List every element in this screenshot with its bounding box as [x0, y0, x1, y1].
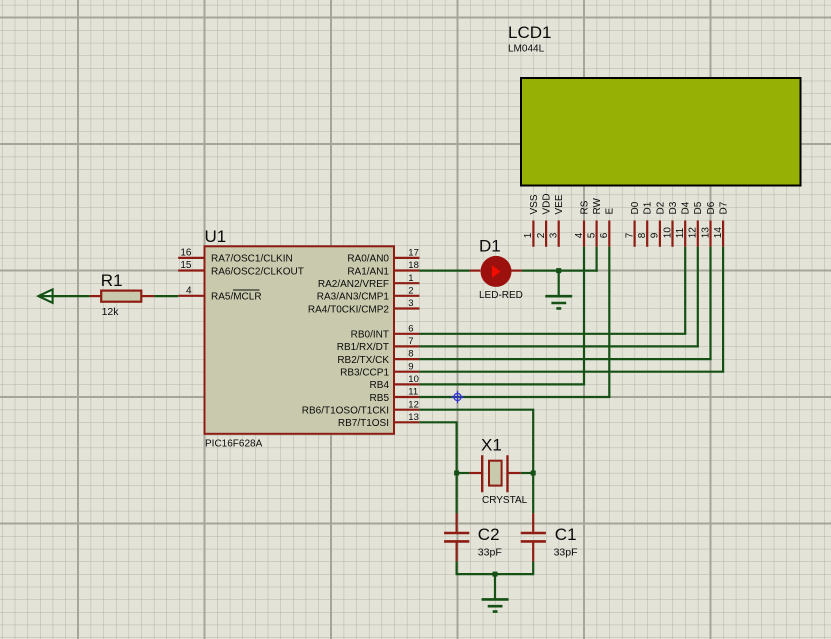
svg-text:12: 12: [688, 227, 699, 239]
resistor R1 body: [90, 291, 155, 302]
svg-text:CRYSTAL: CRYSTAL: [482, 495, 528, 506]
svg-text:RB1/RX/DT: RB1/RX/DT: [337, 342, 389, 353]
U1 pin 18 (RA1/AN1) stub + labels: [347, 260, 419, 277]
ground symbol 1 (near LED): [545, 296, 572, 308]
U1 pin 8 (RB2/TX/CK) stub + labels: [337, 349, 419, 366]
svg-text:11: 11: [408, 387, 418, 398]
svg-text:D6: D6: [706, 201, 717, 214]
svg-text:RB2/TX/CK: RB2/TX/CK: [337, 355, 389, 366]
wire X1 to crystal right node: [521, 472, 533, 474]
LCD1 pin 1 (VSS) stub + labels: [523, 194, 540, 247]
svg-text:1: 1: [408, 273, 413, 284]
U1 pin 12 (RB6/T1OSO/T1CKI) stub + labels: [302, 399, 420, 416]
value label CRYSTAL: [482, 495, 528, 506]
svg-text:X1: X1: [481, 436, 502, 455]
value label 12k: [102, 306, 120, 318]
wire LCD D6 drop: [709, 247, 711, 359]
wire bottom rail: [457, 573, 534, 575]
U1 pin 2 (RA3/AN3/CMP1) stub + labels: [317, 285, 420, 302]
svg-text:D5: D5: [693, 201, 704, 214]
svg-text:7: 7: [408, 336, 413, 347]
wire LCD D4 drop: [684, 247, 686, 334]
wire U1 RB6 right then down to crystal right node: [419, 410, 533, 473]
svg-text:11: 11: [675, 227, 686, 238]
U1 pin 15 (RA6/OSC2/CLKOUT) stub + labels: [178, 260, 304, 277]
svg-text:12: 12: [408, 399, 419, 410]
svg-text:33pF: 33pF: [554, 547, 578, 559]
input terminal arrow (left of R1): [38, 289, 52, 302]
svg-text:VEE: VEE: [554, 194, 565, 214]
IC U1 PIC16F628A body: [205, 246, 395, 433]
svg-text:10: 10: [662, 227, 673, 239]
U1 pin 10 (RB4) stub + labels: [370, 374, 420, 391]
svg-text:D0: D0: [630, 201, 641, 214]
svg-text:17: 17: [408, 247, 419, 258]
LCD1 pin 14 (D7) stub + labels: [713, 201, 730, 247]
wire crystal left node down to C2: [456, 473, 458, 513]
wire C2 down to bottom rail: [456, 561, 458, 575]
svg-text:PIC16F628A: PIC16F628A: [205, 439, 263, 450]
wire LCD D5 drop: [697, 247, 699, 347]
svg-text:2: 2: [536, 232, 547, 238]
U1 pin 9 (RB3/CCP1) stub + labels: [340, 361, 419, 378]
wire U1 RB1 to D5: [419, 345, 699, 347]
svg-text:U1: U1: [205, 227, 227, 246]
svg-text:18: 18: [408, 260, 419, 271]
value label LM044L: [508, 43, 545, 54]
svg-text:D1: D1: [643, 201, 654, 214]
svg-text:8: 8: [408, 349, 413, 360]
wire LCD RW pin down to LED net: [595, 247, 597, 272]
wire crystal right node down to C1: [532, 473, 534, 513]
wire U1 RB0 to D4: [419, 333, 686, 335]
svg-text:16: 16: [180, 247, 192, 258]
label C2: [478, 525, 500, 544]
svg-text:RA5/MCLR: RA5/MCLR: [211, 292, 262, 303]
svg-text:RA3/AN3/CMP1: RA3/AN3/CMP1: [317, 292, 390, 303]
svg-text:LED-RED: LED-RED: [479, 290, 523, 301]
svg-text:15: 15: [180, 260, 192, 271]
junction node bottom rail: [493, 572, 498, 577]
wire LCD E drop (pin6 down): [608, 247, 610, 397]
value label LED-RED: [479, 290, 523, 301]
svg-text:LCD1: LCD1: [508, 23, 551, 42]
wire U1 RB5 to E: [419, 396, 610, 398]
LCD1 pin 3 (VEE) stub + labels: [549, 194, 566, 247]
wire LCD D7 drop: [722, 247, 724, 372]
junction node crystal left: [454, 471, 459, 476]
junction node crystal right: [531, 471, 536, 476]
LED D1: [470, 256, 522, 287]
svg-text:RA4/T0CKI/CMP2: RA4/T0CKI/CMP2: [308, 304, 390, 315]
ground symbol 2 (below crystal caps): [482, 599, 509, 611]
label X1: [481, 436, 502, 455]
wire U1 RB7 right then down to crystal left node: [419, 422, 456, 473]
svg-text:RA2/AN2/VREF: RA2/AN2/VREF: [318, 279, 389, 290]
svg-text:RB5: RB5: [370, 393, 390, 404]
LCD display LCD1 LM044L body: [521, 78, 801, 186]
label U1: [205, 227, 227, 246]
svg-text:R1: R1: [101, 271, 123, 290]
value label PIC16F628A: [205, 439, 263, 450]
svg-text:12k: 12k: [102, 306, 120, 318]
svg-text:13: 13: [408, 412, 419, 423]
svg-text:4: 4: [574, 232, 585, 238]
svg-text:6: 6: [599, 232, 610, 238]
svg-text:6: 6: [408, 323, 413, 334]
U1 pin 6 (RB0/INT) stub + labels: [351, 323, 420, 340]
label LCD1: [508, 23, 551, 42]
LCD1 pin 2 (VDD) stub + labels: [536, 193, 553, 246]
svg-text:C1: C1: [555, 525, 577, 544]
value label 33pF (C2): [478, 547, 502, 559]
svg-text:9: 9: [408, 361, 413, 372]
svg-text:1: 1: [523, 232, 534, 238]
U1 pin 11 (RB5) stub + labels: [370, 387, 420, 404]
wire R1 to U1 pin 4: [154, 295, 178, 297]
U1 pin 13 (RB7/T1OSI) stub + labels: [338, 412, 420, 429]
origin marker (blue crosshair): [451, 391, 464, 404]
U1 pin 4 (RA5/MCLR) stub + labels: [178, 285, 261, 302]
svg-text:3: 3: [549, 232, 560, 238]
svg-text:9: 9: [650, 232, 661, 238]
LCD1 pin 5 (RW) stub + labels: [586, 197, 603, 246]
LCD1 pin 6 (E) stub + labels: [599, 208, 616, 247]
svg-text:10: 10: [408, 374, 419, 385]
wire U1 RB3 to D7: [419, 371, 724, 373]
svg-text:C2: C2: [478, 525, 500, 544]
svg-text:RA0/AN0: RA0/AN0: [347, 254, 389, 265]
svg-text:RA7/OSC1/CLKIN: RA7/OSC1/CLKIN: [211, 254, 293, 265]
svg-text:2: 2: [408, 285, 413, 296]
crystal X1: [470, 455, 521, 492]
wire U1 RB4 to RS: [419, 383, 585, 385]
wire junction down to ground 2: [494, 574, 496, 599]
LCD1 pin 10 (D3) stub + labels: [662, 201, 679, 247]
LCD1 pin 12 (D5) stub + labels: [688, 201, 705, 247]
svg-text:RB0/INT: RB0/INT: [351, 330, 389, 341]
svg-text:RW: RW: [592, 197, 603, 214]
svg-text:D1: D1: [479, 237, 501, 256]
U1 pin 7 (RB1/RX/DT) stub + labels: [337, 336, 420, 353]
svg-text:D4: D4: [681, 201, 692, 214]
wire junction down to ground 1: [558, 271, 560, 296]
LCD1 pin 4 (RS) stub + labels: [574, 200, 591, 247]
LCD1 pin 9 (D2) stub + labels: [650, 201, 667, 247]
wire U1 pin18 (RA1) to LED anode: [419, 270, 469, 272]
svg-text:RA6/OSC2/CLKOUT: RA6/OSC2/CLKOUT: [211, 266, 304, 277]
U1 pin 1 (RA2/AN2/VREF) stub + labels: [318, 273, 420, 290]
junction node LED/ground: [556, 268, 561, 273]
wire LED cathode to RW drop, node at ground tap: [522, 270, 598, 272]
wire terminal to R1: [39, 295, 90, 297]
svg-text:14: 14: [713, 227, 724, 239]
svg-text:RB6/T1OSO/T1CKI: RB6/T1OSO/T1CKI: [302, 406, 389, 417]
value label 33pF (C1): [554, 547, 578, 559]
U1 pin 3 (RA4/T0CKI/CMP2) stub + labels: [308, 298, 420, 315]
LCD1 pin 13 (D6) stub + labels: [700, 201, 717, 247]
LCD1 pin 7 (D0) stub + labels: [624, 201, 641, 247]
svg-text:E: E: [605, 208, 616, 215]
svg-text:4: 4: [186, 285, 192, 296]
svg-text:LM044L: LM044L: [508, 43, 545, 54]
capacitor C1: [521, 513, 546, 561]
svg-text:D7: D7: [719, 201, 730, 214]
svg-text:7: 7: [624, 232, 635, 238]
wire crystal left node to X1: [457, 472, 470, 474]
svg-text:RB7/T1OSI: RB7/T1OSI: [338, 418, 389, 429]
svg-text:VDD: VDD: [542, 193, 553, 214]
U1 pin 17 (RA0/AN0) stub + labels: [347, 247, 419, 264]
svg-text:13: 13: [700, 227, 711, 239]
svg-text:RB4: RB4: [370, 380, 390, 391]
wire LCD RS drop (pin4 down): [583, 247, 585, 385]
svg-text:RS: RS: [579, 200, 590, 214]
label R1: [101, 271, 123, 290]
svg-text:8: 8: [637, 232, 648, 238]
wire U1 RB2 to D6: [419, 358, 711, 360]
U1 pin 16 (RA7/OSC1/CLKIN) stub + labels: [178, 247, 293, 264]
label C1: [555, 525, 577, 544]
svg-text:D3: D3: [668, 201, 679, 214]
svg-text:D2: D2: [655, 201, 666, 214]
wire C1 down to bottom rail: [532, 561, 534, 575]
svg-text:33pF: 33pF: [478, 547, 502, 559]
label D1: [479, 237, 501, 256]
svg-text:VSS: VSS: [529, 194, 540, 214]
LCD1 pin 11 (D4) stub + labels: [675, 201, 692, 247]
svg-text:RB3/CCP1: RB3/CCP1: [340, 368, 389, 379]
LCD1 pin 8 (D1) stub + labels: [637, 201, 654, 247]
svg-text:RA1/AN1: RA1/AN1: [347, 266, 389, 277]
svg-text:3: 3: [408, 298, 413, 309]
svg-text:5: 5: [586, 232, 597, 238]
capacitor C2: [444, 513, 469, 561]
